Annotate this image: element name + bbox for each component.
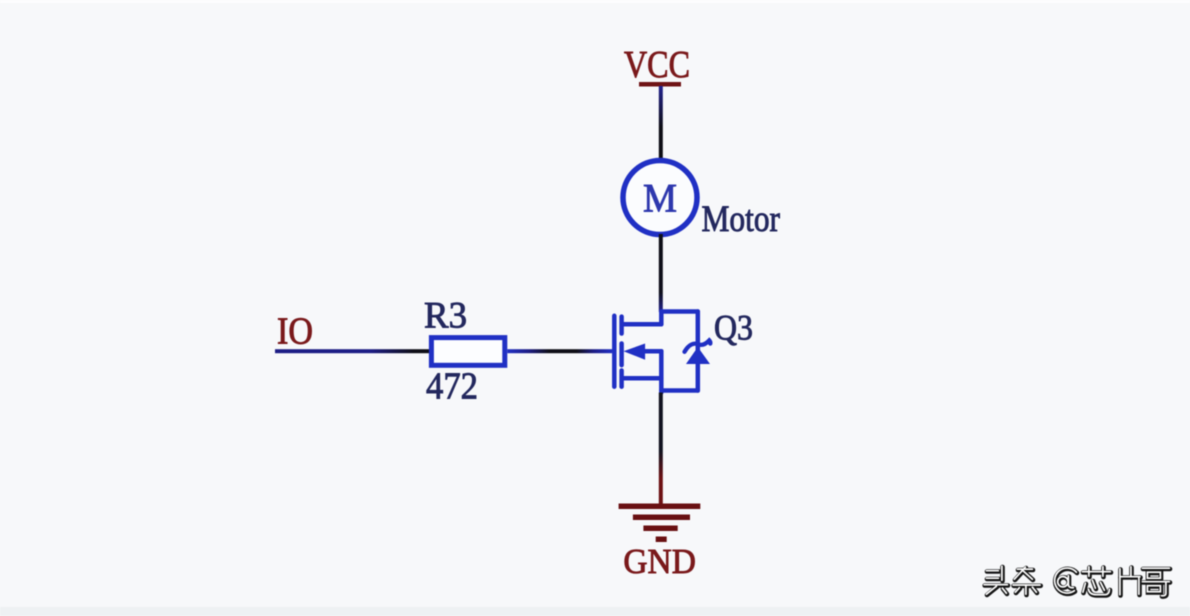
svg-text:Motor: Motor [702,199,781,240]
svg-text:VCC: VCC [624,44,690,86]
片 [1118,570,1123,596]
条 [1018,568,1033,573]
哥 [1143,567,1170,572]
@ [1055,569,1077,594]
哥 [1142,567,1169,569]
motor M circle [623,161,697,235]
芯 [1083,570,1111,575]
diode top horizontal [661,309,698,314]
transistor Q3 [614,312,698,393]
diode bottom horizontal [661,388,698,393]
channel dash bottom [619,371,624,387]
@ [1055,568,1077,593]
svg-text:IO: IO [277,311,313,353]
drain vertical [659,312,664,325]
drain stub [624,322,662,327]
wire Q3 source to GND [659,393,663,506]
头 [986,570,998,572]
头 [987,569,999,574]
svg-text:472: 472 [426,366,478,408]
wire motor to Q3 drain [659,234,663,312]
片 [1119,569,1121,595]
watermark 头条@芯片哥 [984,566,1170,596]
channel dash middle [619,344,624,366]
body diode triangle [686,347,710,364]
gate plate [612,316,617,387]
svg-text:R3: R3 [424,296,467,337]
channel dash top [619,317,624,334]
svg-text:GND: GND [623,542,696,581]
wire IO to R3 [275,349,429,353]
diode right vertical [696,312,701,391]
wire VCC to motor [659,86,663,161]
source stub [624,376,662,381]
芯 [1082,571,1110,573]
条 [1017,568,1032,570]
body arrow [624,344,646,360]
svg-text:M: M [643,176,677,221]
source vertical [659,351,664,392]
power flag VCC [639,82,681,87]
resistor R3 [431,338,504,366]
body diode cathode squiggle [685,340,711,351]
svg-text:Q3: Q3 [714,308,753,348]
wire R3 to Q3 gate [507,349,612,353]
ground symbol [619,504,701,543]
body stub [645,349,661,354]
